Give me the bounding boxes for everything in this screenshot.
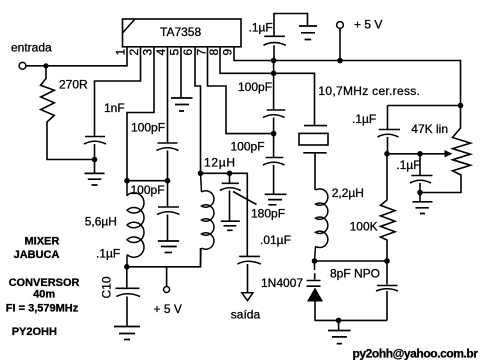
svg-text:.1µF: .1µF	[396, 158, 420, 172]
svg-text:3: 3	[141, 49, 155, 56]
svg-text:100pF: 100pF	[231, 140, 265, 154]
svg-text:entrada: entrada	[11, 41, 52, 55]
svg-text:12µH: 12µH	[204, 156, 236, 170]
svg-text:.1µF: .1µF	[96, 247, 120, 261]
svg-text:8: 8	[207, 49, 221, 56]
svg-text:C10: C10	[100, 276, 114, 298]
svg-text:MIXER: MIXER	[25, 236, 60, 248]
svg-text:1N4007: 1N4007	[261, 276, 303, 290]
svg-text:1: 1	[114, 49, 128, 56]
svg-text:2,2µH: 2,2µH	[332, 186, 364, 200]
svg-text:.1µF: .1µF	[352, 112, 376, 126]
svg-text:180pF: 180pF	[251, 206, 285, 220]
svg-text:6: 6	[181, 49, 195, 56]
svg-text:+ 5 V: + 5 V	[354, 18, 382, 32]
svg-text:FI = 3,579MHz: FI = 3,579MHz	[6, 303, 79, 315]
svg-text:5: 5	[168, 49, 182, 56]
svg-text:100pF: 100pF	[131, 183, 165, 197]
svg-text:100K: 100K	[350, 220, 378, 234]
svg-text:100pF: 100pF	[238, 80, 272, 94]
svg-text:PY2OHH: PY2OHH	[12, 326, 57, 338]
svg-text:1nF: 1nF	[104, 101, 125, 115]
svg-text:.01µF: .01µF	[260, 233, 291, 247]
svg-text:40m: 40m	[33, 289, 55, 301]
svg-text:2: 2	[127, 49, 141, 56]
svg-text:saída: saída	[231, 308, 261, 322]
svg-text:CONVERSOR: CONVERSOR	[9, 277, 80, 289]
svg-text:.1µF: .1µF	[249, 21, 273, 35]
svg-text:+ 5 V: + 5 V	[154, 302, 182, 316]
svg-text:10,7MHz cer.ress.: 10,7MHz cer.ress.	[318, 84, 420, 98]
svg-text:4: 4	[154, 49, 168, 56]
svg-text:47K lin: 47K lin	[411, 122, 448, 136]
svg-text:JABUCA: JABUCA	[14, 249, 60, 261]
svg-text:py2ohh@yahoo.com.br: py2ohh@yahoo.com.br	[353, 347, 479, 360]
svg-text:8pF NPO: 8pF NPO	[330, 267, 380, 281]
svg-text:5,6µH: 5,6µH	[85, 215, 117, 229]
svg-text:100pF: 100pF	[131, 121, 165, 135]
svg-text:270R: 270R	[59, 78, 88, 92]
svg-text:9: 9	[221, 49, 235, 56]
svg-text:TA7358: TA7358	[160, 25, 201, 39]
